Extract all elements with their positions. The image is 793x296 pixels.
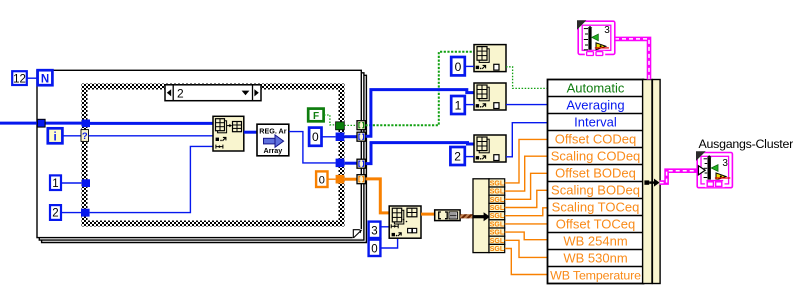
- boolean array wire to index node 1: [365, 52, 474, 125]
- svg-text:Offset TOCeq: Offset TOCeq: [556, 217, 636, 232]
- svg-text:SGL: SGL: [490, 213, 505, 220]
- wire F to green tunnel: [324, 115, 336, 125]
- wire 0 to blue tunnel: [322, 136, 336, 138]
- index array node 2: [474, 83, 506, 110]
- constant 12: [12, 71, 27, 85]
- svg-text:SGL: SGL: [490, 189, 505, 196]
- loop tunnel [] green: [357, 121, 365, 130]
- wire 1 to tunnel: [61, 182, 82, 184]
- wire 0 to node1: [465, 65, 474, 67]
- bundle by name field cells: [548, 80, 644, 284]
- case selector terminal ?: [81, 130, 89, 142]
- svg-text:SGL: SGL: [490, 221, 505, 228]
- svg-text:Averaging: Averaging: [566, 98, 624, 113]
- svg-text:WB 254nm: WB 254nm: [563, 234, 627, 249]
- node1 output to bundle row1: [506, 67, 548, 89]
- cluster wire constant to bundle top: [615, 39, 649, 80]
- black arrow into unbundle bar: [473, 212, 490, 221]
- node3 output to bundle row3: [506, 123, 548, 157]
- index array node 1: [474, 45, 506, 72]
- bundle output arrow: [644, 179, 659, 187]
- cluster wire bundle to indicator: [660, 171, 699, 183]
- svg-text:Automatic: Automatic: [567, 81, 625, 96]
- svg-text:Offset BODeq: Offset BODeq: [555, 166, 636, 181]
- unbundle cream bar: [473, 179, 489, 253]
- svg-text:Offset CODeq: Offset CODeq: [555, 132, 636, 147]
- svg-text:SGL: SGL: [490, 197, 505, 204]
- svg-text:WB Temperature: WB Temperature: [550, 269, 641, 283]
- svg-text:SGL: SGL: [490, 205, 505, 212]
- svg-text:?: ?: [82, 131, 88, 142]
- svg-text:1: 1: [52, 178, 58, 190]
- case tunnel green: [336, 122, 345, 130]
- replace array subset node: [213, 116, 244, 151]
- index array node 3: [474, 135, 506, 162]
- boolean constant F: [308, 109, 323, 122]
- svg-text:SGL: SGL: [490, 230, 505, 237]
- svg-text:SGL: SGL: [490, 238, 505, 245]
- wire 12 to N: [27, 77, 38, 79]
- wire 2 to node3: [465, 156, 474, 158]
- i iteration terminal: [48, 128, 63, 143]
- wire 2 to tunnel: [61, 212, 82, 214]
- SGL output wires to bundle rows: [505, 139, 548, 274]
- case tunnel from 2: [81, 209, 90, 217]
- svg-text:3: 3: [604, 25, 610, 36]
- constant 2 (index 3): [450, 147, 464, 165]
- svg-text:i: i: [53, 132, 56, 144]
- svg-text:WB 530nm: WB 530nm: [563, 251, 627, 266]
- array subset node: [389, 206, 421, 238]
- array wire to index node 2: [365, 90, 474, 137]
- constant 2 (left): [50, 205, 61, 220]
- SGL conversion boxes: [489, 179, 505, 253]
- constant 0 (index 1): [451, 57, 465, 75]
- svg-text:2: 2: [177, 86, 184, 100]
- svg-text:0: 0: [371, 243, 377, 255]
- wire 3 to array subset: [380, 226, 389, 228]
- svg-text:0: 0: [455, 60, 462, 74]
- svg-text:Scaling BODeq: Scaling BODeq: [551, 183, 640, 198]
- svg-text:2: 2: [454, 150, 461, 164]
- case selector label: [165, 85, 261, 101]
- Ausgangs-Cluster indicator icon: [696, 151, 732, 188]
- svg-text:0: 0: [312, 130, 319, 144]
- case structure checkered border: [82, 84, 345, 227]
- constant 0 (orange, case): [316, 171, 327, 187]
- case tunnel from 1: [82, 179, 90, 187]
- constant 0 (array subset length): [369, 240, 381, 256]
- wires case tunnels to loop tunnels: [344, 124, 357, 126]
- constant 3 (array subset index): [369, 222, 381, 238]
- array wire to index node 3: [365, 143, 474, 164]
- case border tunnel (array in): [82, 120, 90, 128]
- svg-text:SGL: SGL: [490, 180, 505, 187]
- svg-text:Ausgangs-Cluster: Ausgangs-Cluster: [699, 137, 793, 151]
- svg-text:Scaling CODeq: Scaling CODeq: [551, 149, 641, 164]
- case tunnel blue upper: [336, 133, 345, 142]
- cluster wire (crosshatch): [460, 214, 473, 218]
- array wire to array-subset node: [365, 179, 389, 213]
- node2 output to bundle row2: [506, 104, 548, 106]
- case tunnel blue lower: [336, 159, 345, 168]
- loop tunnel [] blue upper: [357, 132, 365, 141]
- wire 1 to node2: [465, 104, 474, 106]
- fold corner of loop frame: [353, 229, 363, 238]
- main array wire entering loop: [0, 122, 90, 125]
- svg-text:2: 2: [52, 208, 58, 220]
- wire 0 to orange tunnel: [328, 178, 336, 180]
- svg-text:1: 1: [455, 99, 462, 113]
- svg-text:12: 12: [13, 73, 26, 85]
- svg-text:3: 3: [722, 158, 728, 169]
- constant 1 (index 2): [451, 96, 465, 114]
- constant 1 (left): [50, 175, 61, 190]
- svg-text:F: F: [313, 111, 319, 122]
- loop tunnel [] blue lower: [357, 159, 365, 168]
- svg-text:Interval: Interval: [574, 115, 617, 130]
- svg-text:Scaling TOCeq: Scaling TOCeq: [552, 200, 640, 215]
- wire 0 to array subset bottom: [380, 238, 397, 248]
- array-to-cluster node: [435, 210, 460, 221]
- array subset output wire: [421, 213, 435, 216]
- wire array inside case: [90, 122, 213, 125]
- svg-text:Array: Array: [264, 146, 283, 155]
- svg-text:N: N: [41, 74, 49, 86]
- wire i to case selector: [62, 135, 81, 137]
- svg-text:3: 3: [371, 225, 377, 237]
- cluster constant icon (top): [577, 20, 615, 56]
- N count terminal: [38, 70, 53, 85]
- subVI REG Ar Array: [257, 124, 289, 156]
- bundle cream columns: [643, 80, 652, 284]
- svg-text:REG. Ar: REG. Ar: [259, 127, 286, 136]
- case tunnel orange: [336, 175, 345, 184]
- svg-text:0: 0: [319, 175, 325, 187]
- loop tunnel [] orange: [357, 175, 365, 184]
- constant 0 (blue, case): [309, 128, 321, 146]
- subVI output wire routed to case tunnel: [289, 132, 336, 163]
- loop border tunnel: [37, 119, 45, 127]
- wire from selector row into node: [89, 135, 214, 137]
- node output wire to subVI: [244, 131, 257, 134]
- for loop border (stacked frames): [37, 70, 366, 242]
- svg-text:SGL: SGL: [490, 246, 505, 253]
- wire from 2-tunnel to node lower input: [90, 146, 213, 212]
